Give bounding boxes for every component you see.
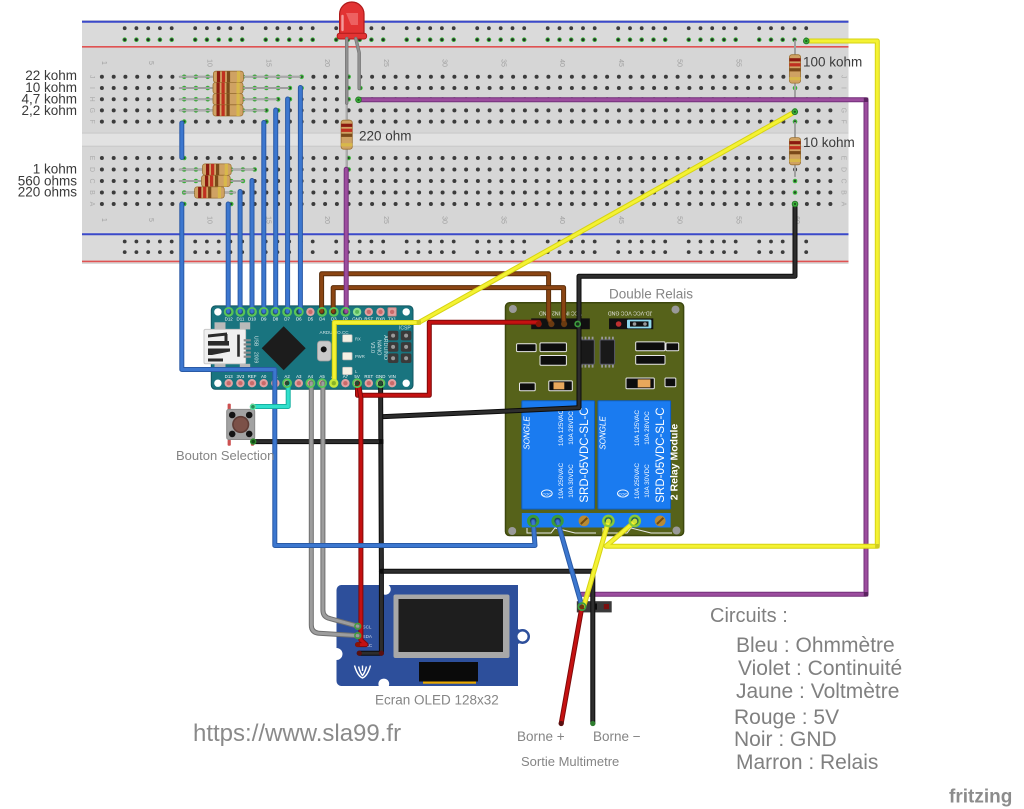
svg-text:30: 30 (441, 216, 448, 224)
svg-text:https://www.sla99.fr: https://www.sla99.fr (193, 720, 401, 747)
svg-text:45: 45 (617, 216, 624, 224)
svg-text:J: J (88, 75, 95, 79)
svg-text:20: 20 (323, 59, 330, 67)
svg-text:10 kohm: 10 kohm (803, 135, 855, 150)
svg-text:D11: D11 (237, 317, 245, 322)
svg-text:PWR: PWR (355, 354, 365, 359)
svg-text:A4: A4 (308, 374, 314, 379)
svg-text:VCC IN1 IN2 GND: VCC IN1 IN2 GND (539, 310, 582, 316)
svg-text:F: F (840, 119, 847, 123)
svg-text:E: E (840, 156, 847, 161)
svg-text:REF: REF (248, 374, 257, 379)
svg-text:5V: 5V (354, 374, 359, 379)
svg-text:GND: GND (376, 374, 386, 379)
svg-text:D6: D6 (296, 317, 302, 322)
svg-text:10A 125VAC: 10A 125VAC (558, 410, 565, 447)
svg-text:COC: COC (618, 491, 627, 496)
svg-text:25: 25 (382, 216, 389, 224)
svg-text:10A 28VDC: 10A 28VDC (644, 411, 651, 445)
svg-text:B: B (840, 190, 847, 195)
svg-text:Borne −: Borne − (593, 729, 641, 744)
svg-text:10A 30VDC: 10A 30VDC (644, 464, 651, 498)
svg-text:50: 50 (676, 216, 683, 224)
svg-text:10: 10 (206, 59, 213, 67)
svg-text:SDA: SDA (363, 634, 373, 639)
svg-text:A3: A3 (296, 374, 302, 379)
svg-text:B: B (88, 190, 95, 195)
svg-text:D9: D9 (261, 317, 267, 322)
svg-text:1: 1 (100, 218, 107, 222)
svg-text:D4: D4 (319, 317, 325, 322)
svg-text:D: D (88, 167, 95, 172)
svg-text:100 kohm: 100 kohm (803, 55, 862, 70)
svg-text:Bouton Selection: Bouton Selection (176, 448, 274, 463)
svg-text:15: 15 (264, 59, 271, 67)
svg-text:SONGLE: SONGLE (598, 416, 607, 450)
svg-text:C: C (840, 178, 847, 183)
svg-text:D12: D12 (225, 317, 234, 322)
svg-text:COC: COC (542, 491, 551, 496)
svg-text:SCL: SCL (363, 625, 372, 630)
svg-text:Rouge : 5V: Rouge : 5V (734, 706, 839, 729)
svg-text:NANO: NANO (376, 340, 382, 356)
svg-text:J: J (840, 75, 847, 79)
svg-text:D8: D8 (273, 317, 279, 322)
svg-text:2 Relay Module: 2 Relay Module (669, 424, 681, 501)
svg-text:45: 45 (617, 59, 624, 67)
svg-text:Borne +: Borne + (517, 729, 565, 744)
svg-text:3V3: 3V3 (236, 374, 244, 379)
svg-text:E: E (88, 156, 95, 161)
svg-text:I: I (88, 87, 95, 89)
svg-text:JD-VCC VCC GND: JD-VCC VCC GND (608, 310, 653, 316)
svg-text:Ecran OLED 128x32: Ecran OLED 128x32 (375, 693, 499, 708)
svg-text:ARDUINO: ARDUINO (382, 335, 388, 360)
svg-text:RX: RX (355, 337, 361, 342)
svg-text:40: 40 (558, 216, 565, 224)
svg-text:10A 30VDC: 10A 30VDC (568, 464, 575, 498)
svg-text:5: 5 (147, 218, 154, 222)
svg-text:10A 250VAC: 10A 250VAC (634, 463, 641, 500)
svg-text:35: 35 (499, 59, 506, 67)
svg-text:25: 25 (382, 59, 389, 67)
svg-text:Double Relais: Double Relais (609, 287, 693, 302)
svg-text:C: C (88, 178, 95, 183)
svg-text:USB: USB (253, 336, 259, 347)
svg-text:G: G (840, 108, 847, 113)
svg-text:2,2 kohm: 2,2 kohm (21, 103, 77, 118)
svg-text:Jaune : Voltmètre: Jaune : Voltmètre (736, 680, 899, 703)
svg-text:Sortie Multimetre: Sortie Multimetre (521, 754, 619, 769)
svg-text:20: 20 (323, 216, 330, 224)
svg-text:10A 28VDC: 10A 28VDC (568, 411, 575, 445)
svg-text:SRD-05VDC-SL-C: SRD-05VDC-SL-C (579, 407, 591, 502)
svg-text:H: H (88, 97, 95, 102)
svg-text:RST: RST (364, 374, 373, 379)
svg-text:220 ohms: 220 ohms (18, 184, 78, 199)
svg-text:Marron : Relais: Marron : Relais (736, 751, 878, 774)
svg-text:VIN: VIN (388, 374, 395, 379)
svg-text:30: 30 (441, 59, 448, 67)
svg-text:Noir : GND: Noir : GND (734, 728, 837, 751)
svg-text:I: I (840, 87, 847, 89)
svg-text:Circuits :: Circuits : (710, 605, 788, 627)
svg-text:A: A (840, 202, 847, 207)
svg-text:F: F (88, 119, 95, 123)
svg-text:35: 35 (499, 216, 506, 224)
svg-text:D13: D13 (225, 374, 234, 379)
svg-text:A0: A0 (261, 374, 267, 379)
svg-text:55: 55 (734, 59, 741, 67)
svg-text:D7: D7 (284, 317, 290, 322)
svg-text:G: G (88, 108, 95, 113)
svg-text:10: 10 (206, 216, 213, 224)
svg-text:A2: A2 (284, 374, 290, 379)
svg-text:A5: A5 (319, 374, 325, 379)
svg-text:D10: D10 (248, 317, 257, 322)
svg-text:5: 5 (147, 61, 154, 65)
svg-text:55: 55 (734, 216, 741, 224)
svg-text:10A 250VAC: 10A 250VAC (558, 463, 565, 500)
svg-text:fritzing: fritzing (949, 787, 1012, 808)
svg-text:50: 50 (676, 59, 683, 67)
svg-text:1: 1 (100, 61, 107, 65)
svg-text:SRD-05VDC-SL-C: SRD-05VDC-SL-C (655, 407, 667, 502)
svg-text:ICSP: ICSP (399, 326, 411, 332)
svg-text:V3.0: V3.0 (369, 342, 375, 353)
svg-text:40: 40 (558, 59, 565, 67)
svg-text:220 ohm: 220 ohm (359, 129, 412, 144)
svg-text:Violet : Continuité: Violet : Continuité (738, 657, 902, 680)
svg-text:Bleu : Ohmmètre: Bleu : Ohmmètre (736, 634, 895, 657)
svg-text:D: D (840, 167, 847, 172)
svg-text:2009: 2009 (253, 352, 259, 363)
svg-text:D5: D5 (308, 317, 314, 322)
svg-text:10A 125VAC: 10A 125VAC (634, 410, 641, 447)
svg-text:A: A (88, 202, 95, 207)
svg-text:SONGLE: SONGLE (522, 416, 531, 450)
